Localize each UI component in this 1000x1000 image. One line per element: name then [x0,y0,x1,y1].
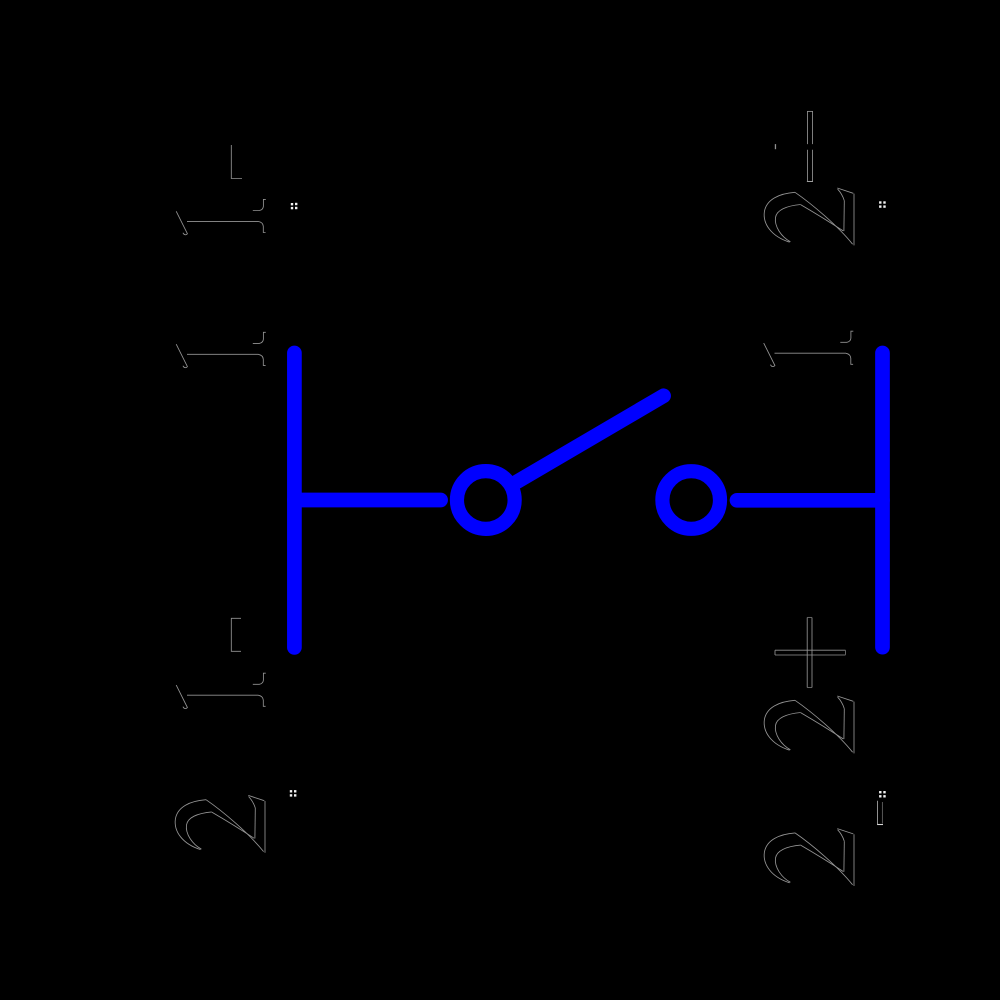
glyph 2 (first) [764,829,854,886]
glyph 1 [176,673,266,708]
label pin name 2.1- (left bottom), rotated [175,618,266,853]
switch contact circle A [457,471,515,529]
glyph plus (two crossing stroke capsules) [775,617,846,687]
wire switch blade (diagonal) [517,396,664,482]
glyph hyphen partial [231,145,242,179]
label pin name 2.2+ (right bottom), rotated [764,617,883,886]
pin end marker top-right (2x2 dots) [879,201,886,207]
glyph 1 (near bar) [176,332,266,367]
pin end marker top-left (2x2 dots) [291,203,298,209]
glyph 1 [764,331,854,366]
glyph 2 (second) [764,696,854,753]
wire right terminal bar [875,353,890,647]
label pin name 1 2- (right top), rotated [764,111,854,366]
wire left terminal bar [287,353,302,647]
wire left horizontal [294,493,440,508]
glyph 2 [764,188,854,245]
glyph 1 (outer) [176,199,266,234]
pin end marker bottom-left (2x2 dots) [290,790,297,797]
glyph period (stroke capsule) [877,801,883,825]
glyph speck [774,144,776,149]
glyph hyphen partial [231,618,241,651]
glyph 2 [175,795,265,852]
switch contact circle B [662,471,720,529]
label pin name 1.1- (left top), rotated [176,145,266,368]
wire right horizontal [737,493,883,508]
glyph minus (stroke capsule) [807,111,813,181]
pin end marker bottom-right (2x2 dots) [879,791,886,798]
